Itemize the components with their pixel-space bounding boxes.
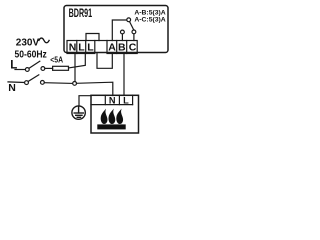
terminal letters A B C	[108, 41, 137, 53]
wire contact B to terminal B	[121, 34, 123, 41]
svg-text:A-C:5(3)A: A-C:5(3)A	[134, 16, 165, 23]
wire N terminal drop	[74, 54, 76, 82]
switch blade N	[28, 75, 38, 82]
wire contact C to terminal C	[133, 34, 135, 41]
wire link L2 to A below terminals	[97, 54, 112, 69]
flame 3	[116, 109, 123, 124]
svg-text:BDR91: BDR91	[69, 6, 93, 20]
wire fuse to L terminal	[69, 54, 86, 69]
terminal strip N L L	[67, 41, 95, 54]
flame 2	[108, 109, 115, 124]
svg-text:50-60Hz: 50-60Hz	[15, 49, 47, 60]
svg-text:C: C	[129, 41, 137, 53]
burner bar	[97, 124, 125, 129]
svg-text:<5A: <5A	[50, 55, 63, 65]
tilde symbol	[39, 38, 49, 43]
terminal strip A B C	[107, 41, 137, 54]
svg-text:B: B	[118, 41, 126, 53]
svg-text:230V: 230V	[16, 38, 40, 49]
strip bridge line	[95, 40, 107, 42]
switch contact L right	[41, 67, 45, 71]
wire N run to boiler	[77, 82, 113, 95]
switch blade L	[29, 61, 39, 68]
earth wire to boiler	[79, 96, 91, 107]
svg-text:N: N	[8, 82, 16, 94]
boiler box	[91, 95, 139, 133]
wire B to boiler L	[123, 54, 125, 96]
fuse F1	[53, 66, 69, 70]
svg-text:L: L	[87, 41, 94, 53]
wire N lead-in	[8, 81, 25, 84]
earth symbol	[72, 106, 85, 119]
svg-text:L: L	[78, 41, 85, 53]
junction node N	[73, 82, 77, 86]
boiler terminal letters N L	[109, 95, 129, 105]
svg-text:A: A	[108, 41, 116, 53]
wire N run	[44, 82, 72, 85]
relay moving arm	[130, 22, 135, 31]
relay common wire from A	[112, 20, 127, 41]
BDR91 receiver box U1	[64, 6, 168, 53]
relay pivot contact	[127, 18, 131, 22]
svg-text:L: L	[123, 95, 129, 105]
jumper link L-L inside box	[86, 34, 99, 41]
relay contact C	[132, 30, 136, 34]
flame 1	[101, 109, 108, 124]
relay contact B	[121, 30, 125, 34]
wire to fuse	[45, 67, 53, 69]
switch contact L left	[25, 68, 29, 72]
terminal letters N L L	[69, 41, 95, 53]
svg-text:N: N	[69, 41, 77, 53]
wire L lead-in	[15, 69, 25, 71]
switch contact N right	[41, 81, 45, 85]
boiler terminal strip	[91, 95, 133, 104]
svg-text:N: N	[109, 95, 116, 105]
switch contact N left	[25, 81, 29, 85]
